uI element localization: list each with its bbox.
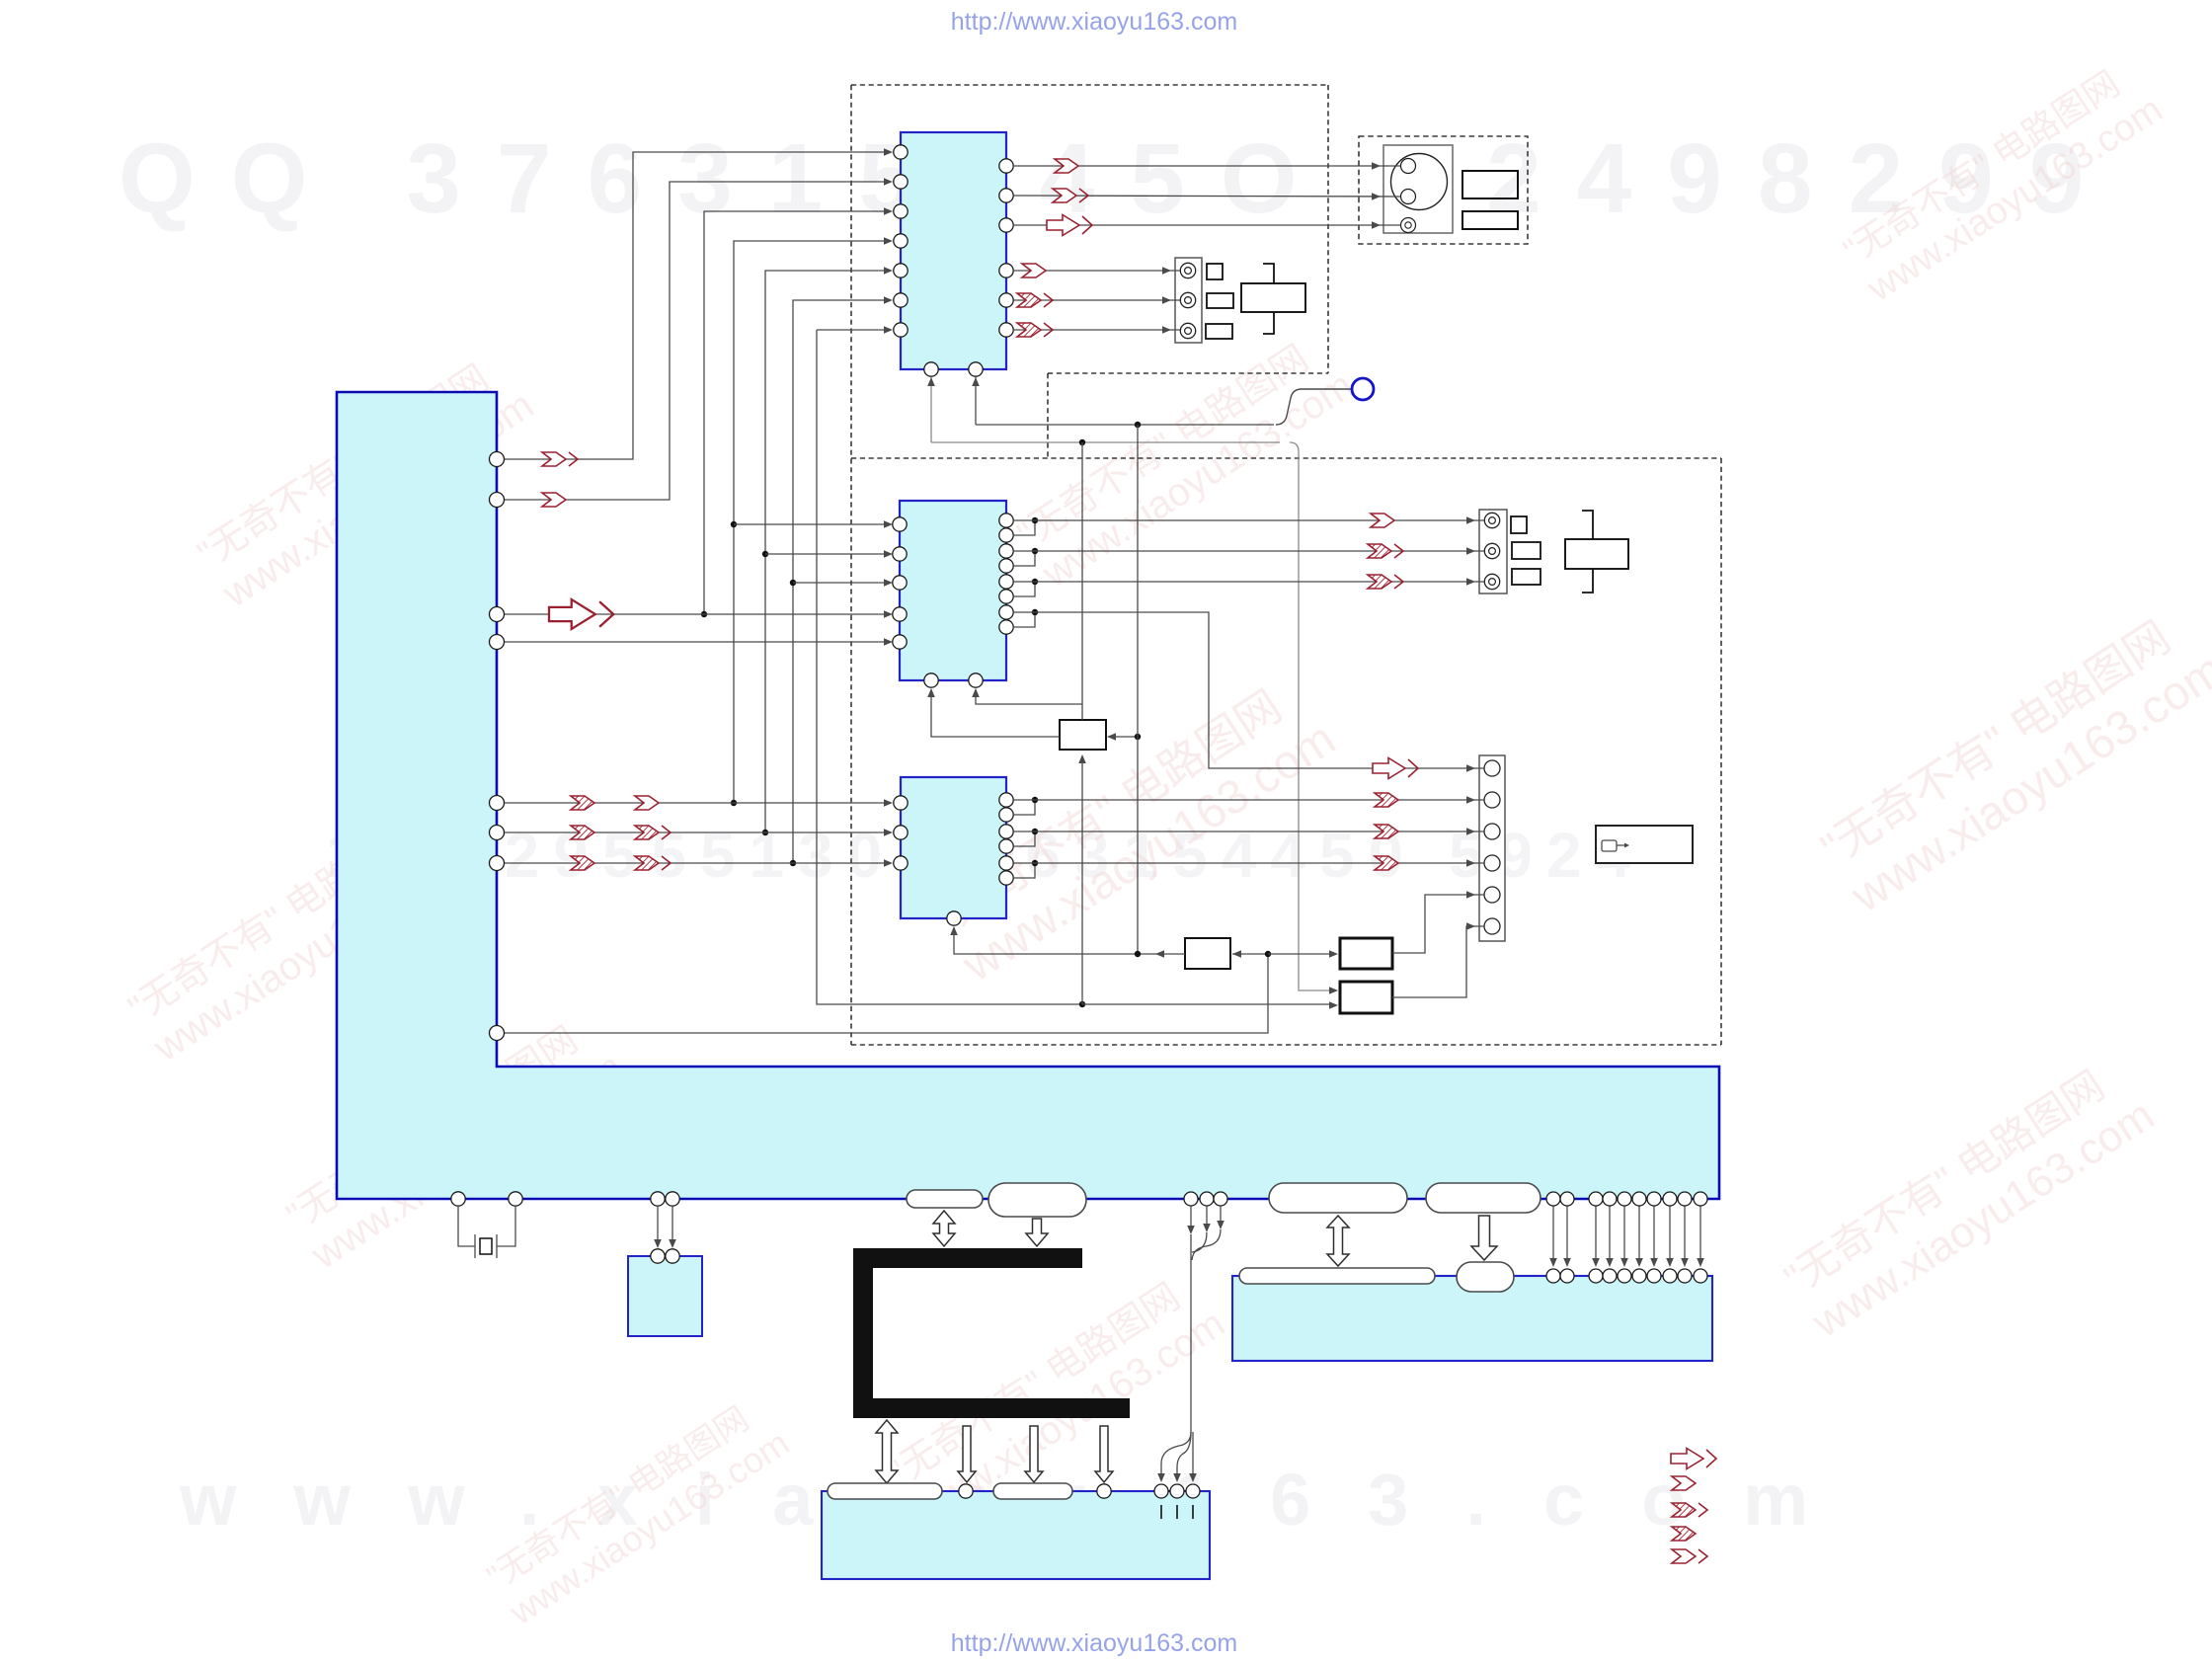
main IC right pin 1 <box>490 452 505 467</box>
main IC bottom pin XTAL1 <box>451 1192 465 1206</box>
IC2 bottom pin B <box>969 673 983 687</box>
IC2 left pin 4 <box>893 607 907 621</box>
wire IC1 pinA long run to SYNC box4 <box>931 441 1280 443</box>
arrow hatched-double bus3 <box>1368 575 1403 589</box>
CN1 jack pin 2 <box>1180 292 1195 307</box>
wire IC1 pinB to antenna pad <box>976 424 1274 426</box>
wire bundle G1 <box>1190 1206 1192 1232</box>
CN3 pin 4 <box>1484 855 1500 871</box>
wire X2 out to IC2 bottom pinA <box>931 689 1060 737</box>
IC1 left pin 5 <box>894 264 908 277</box>
IC1 left pin 1 <box>894 145 908 159</box>
IC1 left pin 3 <box>894 204 908 218</box>
watermark pink diagonal 5 <box>922 666 1344 992</box>
CN1 pad rect3 <box>1206 324 1232 339</box>
wire SYNC2 out to CN3 pin5 <box>1392 895 1484 953</box>
IC3 left pin 1 <box>894 796 908 810</box>
pad F1 on power board <box>1457 1262 1514 1292</box>
watermark pink diagonal 10 <box>480 1388 796 1632</box>
power board pin 6 <box>1632 1269 1646 1283</box>
power board pin 5 <box>1618 1269 1631 1283</box>
wire bus vertical to IC1 pin3 <box>704 211 886 614</box>
CN3 pin 6 <box>1484 918 1500 934</box>
power board pin 3 <box>1589 1269 1603 1283</box>
key pin1 <box>959 1484 973 1498</box>
arrow chevron on wire <box>542 493 566 507</box>
main IC right pin 3 <box>490 607 505 622</box>
IC bar power pin 7 <box>1647 1192 1661 1206</box>
wire IC1 video out to AV jack <box>1013 165 1400 167</box>
arrow hatched IC3bus2 <box>1375 825 1398 838</box>
key gnd pin1 <box>1154 1484 1168 1498</box>
wire SYNC1 out left to IC3 bottom <box>954 927 1185 954</box>
legend arrow chevron <box>1672 1476 1696 1490</box>
IC3 right pin 5 <box>999 856 1013 870</box>
legend arrow chevron-double <box>1672 1549 1707 1563</box>
block bottom-right board (power) <box>1232 1276 1712 1361</box>
IC bar power pin 6 <box>1632 1192 1646 1206</box>
dashed boundary middle box top edge <box>851 457 1721 459</box>
IC bar power pin 4 <box>1603 1192 1617 1206</box>
IC2 left pin 3 <box>893 576 907 590</box>
main IC bottom pin MEM2 <box>666 1192 679 1206</box>
main IC right pin 7 <box>490 856 505 871</box>
arrow hatched on IC3 wire1 <box>571 796 594 810</box>
key gnd tick2 <box>1176 1505 1178 1519</box>
key gnd pin2 <box>1170 1484 1184 1498</box>
IC3 right pin 3 <box>999 825 1013 838</box>
CN1 jack pin 3 <box>1180 323 1195 338</box>
IC3 left pin 2 <box>894 826 908 839</box>
wire bus vertical to IC1 pin4 and IC2 pin1 <box>734 241 886 803</box>
IC1 right pin 4 <box>999 264 1013 277</box>
IC bar power pin 3 <box>1589 1192 1603 1206</box>
CN2 pad square <box>1511 516 1527 533</box>
power board pin 1 <box>1546 1269 1560 1283</box>
wire IC to memory pin2 <box>671 1206 673 1246</box>
power wire 9 <box>1684 1206 1686 1265</box>
arrow chevron-double on VD wire <box>542 452 578 466</box>
IC2 right pin 5 <box>999 575 1013 589</box>
wire IC1 audio out to AV jack <box>1013 196 1400 197</box>
wire IC2 bottom pinB from clock net <box>976 689 1082 704</box>
wire into X2 right side <box>1108 736 1138 738</box>
wire bus vertical to IC1 pin7 <box>817 329 886 331</box>
IC3 output pair jog 810 <box>1013 800 1035 815</box>
IC3 right pin 6 <box>999 871 1013 885</box>
key gnd tick3 <box>1192 1505 1194 1519</box>
connector CN1 3-pin body <box>1175 258 1202 343</box>
watermark pink diagonal 9 <box>1835 51 2170 311</box>
IC2 left pin 5 <box>893 635 907 649</box>
watermark pink diagonal 8 <box>881 1263 1232 1535</box>
open down arrow CN4 to key2 <box>1095 1426 1113 1482</box>
power wire 2 <box>1566 1206 1568 1265</box>
legend arrow hatched-double <box>1672 1503 1707 1517</box>
arrow chevron video <box>1055 159 1078 173</box>
arrow big out3 <box>1047 215 1092 236</box>
IC bar power pin 9 <box>1678 1192 1692 1206</box>
watermark pink diagonal 2 <box>120 799 472 1070</box>
wire IC2 bus3 to CN2 pin3 <box>1013 581 1484 583</box>
IC2 right pin 8 <box>999 620 1013 634</box>
component T2 (filter) body <box>1565 539 1628 569</box>
arrow chevron CN1-1 <box>1022 264 1046 277</box>
wire IC sync out to SYNC2 box <box>505 954 1268 1033</box>
pad P3 on IC bar <box>1269 1183 1407 1213</box>
connector CN2 3-pin body <box>1479 510 1507 594</box>
IC bar power pin 8 <box>1663 1192 1677 1206</box>
wire antenna-net into X2 top <box>1081 442 1083 720</box>
pad P4 on IC bar <box>1426 1183 1540 1213</box>
arrow big bus4 <box>1373 758 1418 779</box>
component T1 lead bottom <box>1263 312 1274 334</box>
CN3 pin 1 <box>1484 760 1500 776</box>
IC1 right pin 2 <box>999 189 1013 202</box>
dashed boundary tuner box bottom edge <box>1048 372 1328 374</box>
AV jack barrel circle <box>1391 154 1448 210</box>
box USB out <box>1596 826 1693 863</box>
key gnd pin3 <box>1186 1484 1200 1498</box>
open down arrow P2 to CN4 <box>1026 1219 1048 1246</box>
memory top pin2 <box>666 1249 679 1263</box>
power board pin 10 <box>1694 1269 1707 1283</box>
CN1 pad rect2 <box>1207 293 1233 308</box>
main IC bottom pin MEM1 <box>651 1192 665 1206</box>
svg-text:http://www.xiaoyu163.com: http://www.xiaoyu163.com <box>951 8 1237 36</box>
IC bar power pin 1 <box>1546 1192 1560 1206</box>
IC3 right pin 2 <box>999 808 1013 822</box>
power board pin 7 <box>1647 1269 1661 1283</box>
main IC right pin 8 <box>490 1026 505 1041</box>
watermark pink diagonal 4 <box>1009 325 1361 596</box>
box SYNC1 body <box>1185 938 1230 969</box>
power wire 7 <box>1653 1206 1655 1265</box>
dashed boundary notch vertical <box>1047 373 1049 458</box>
open double arrow CN4 to pad K1 <box>876 1420 898 1483</box>
connector CN3 6-pin body <box>1479 755 1505 941</box>
IC2 bottom pin A <box>924 673 938 687</box>
IC1 right pin 5 <box>999 293 1013 307</box>
memory top pin1 <box>651 1249 665 1263</box>
block IC2 (middle) <box>900 501 1006 680</box>
main IC right pin 6 <box>490 826 505 840</box>
box SYNC3 body <box>1340 982 1392 1013</box>
arrow chevron on IC3 wire1 <box>635 796 659 810</box>
wire SYNC3 out to CN3 pin6 <box>1392 926 1484 997</box>
CN1 jack pin 1 <box>1180 263 1195 277</box>
open down arrow CN4 to pad K2 <box>1025 1426 1043 1482</box>
arrow hatched IC3bus1 <box>1375 793 1398 807</box>
IC3 bottom pin <box>947 911 961 925</box>
IC bar power pin 5 <box>1618 1192 1631 1206</box>
AV jack pin top <box>1401 159 1416 174</box>
arrow hatched on IC3 wire3 <box>571 856 594 870</box>
AV jack terminal rect2 <box>1462 211 1518 229</box>
pad P1 on IC bar <box>907 1190 983 1208</box>
dashed boundary middle box right edge <box>1720 458 1722 1045</box>
open double arrow P1 to CN4 <box>933 1211 955 1246</box>
AV jack body <box>1383 145 1453 233</box>
wire IC3 bus2 to CN3 pin3 <box>1013 831 1484 832</box>
IC2 right pin 4 <box>999 559 1013 573</box>
crystal X1 circuit <box>458 1206 475 1246</box>
CN3 pin 5 <box>1484 887 1500 903</box>
wire vertical bus x1152 <box>1137 425 1139 954</box>
svg-text:QQ 376315445O 52498299: QQ 376315445O 52498299 <box>118 123 2119 234</box>
arrow hatched-double on IC3 wire3 <box>635 856 671 870</box>
power wire 5 <box>1623 1206 1625 1265</box>
wire IC to IC3 pin3 <box>505 862 886 864</box>
IC3 output pair jog 842 <box>1013 831 1035 846</box>
CN3 pin 2 <box>1484 792 1500 808</box>
IC2 output pair jog 589 <box>1013 582 1035 596</box>
wire IC3 bus1 to CN3 pin2 <box>1013 799 1484 801</box>
block bottom-left board (keyboard) <box>822 1491 1210 1579</box>
AV jack pin bottom <box>1401 190 1416 204</box>
IC2 output pair jog 558 <box>1013 551 1035 566</box>
power wire 3 <box>1595 1206 1597 1265</box>
wire IC2 bus1 to CN2 pin1 <box>1013 519 1484 521</box>
wire into SYNC2 left <box>1268 953 1333 955</box>
power wire 6 <box>1638 1206 1640 1265</box>
IC1 left pin 4 <box>894 234 908 248</box>
pad K2 on keyboard <box>993 1483 1072 1499</box>
IC3 right pin 1 <box>999 793 1013 807</box>
wire IC to IC3 pin2 <box>505 831 886 833</box>
wire IC1 to CN1 pin2 <box>1013 299 1180 301</box>
wire bus vertical to IC1 pin5 and IC2 pin2 <box>765 271 886 832</box>
CN2 jack pin 3 <box>1484 574 1499 589</box>
wire IC to memory pin1 <box>657 1206 659 1246</box>
wire X2 bottom from osc net <box>1081 756 1083 1004</box>
component T1 lead top <box>1263 264 1274 283</box>
power board pin 4 <box>1603 1269 1617 1283</box>
connector CN4 frame (thick C shape) <box>863 1258 1130 1408</box>
CN2 jack pin 1 <box>1484 513 1499 527</box>
CN2 jack pin 2 <box>1484 543 1499 558</box>
antenna pad circle <box>1352 378 1374 400</box>
IC bar power pin 2 <box>1560 1192 1574 1206</box>
arrow hatched-double CN1-2 <box>1017 293 1053 307</box>
IC3 right pin 4 <box>999 839 1013 853</box>
wire IC1 to CN1 pin1 <box>1013 270 1180 272</box>
IC3 output pair jog 874 <box>1013 863 1035 878</box>
arrow chevron-double audio <box>1053 189 1088 202</box>
power board pin 9 <box>1678 1269 1692 1283</box>
wire bundle G2 <box>1206 1206 1208 1230</box>
key pin2 <box>1097 1484 1111 1498</box>
legend arrow big <box>1671 1449 1716 1469</box>
pad K1 on keyboard <box>828 1483 942 1499</box>
open down arrow P4 to pad F1 <box>1471 1216 1497 1260</box>
wire IC3 bus3 to CN3 pin4 <box>1013 862 1484 864</box>
dashed boundary left edge of IC-group boxes <box>850 85 852 1045</box>
svg-text:http://www.xiaoyu163.com: http://www.xiaoyu163.com <box>951 1629 1237 1657</box>
IC bar pin G1 <box>1184 1192 1198 1206</box>
IC bar pin G2 <box>1200 1192 1214 1206</box>
wire IC big-bus to IC2 pin4 <box>505 613 886 615</box>
pad E1 on power board <box>1239 1268 1435 1284</box>
power wire 10 <box>1699 1206 1701 1265</box>
component T2 lead top <box>1582 511 1593 539</box>
wire IC pin VD to IC1 pin1 <box>505 152 886 459</box>
pad P2 on IC bar <box>988 1183 1086 1217</box>
block small memory (below bar) <box>628 1256 702 1336</box>
main IC bottom pin XTAL2 <box>509 1192 522 1206</box>
wire IC to IC2 pin5 <box>505 641 886 643</box>
arrow hatched-double on IC3 wire2 <box>635 826 671 839</box>
power board pin 8 <box>1663 1269 1677 1283</box>
wire IC pin to IC1 pin2 <box>505 182 886 500</box>
block IC1 (tuner/demod, top) <box>901 132 1006 369</box>
power wire 4 <box>1609 1206 1611 1265</box>
dashed box around AV jack <box>1359 136 1528 244</box>
main IC right pin 2 <box>490 493 505 508</box>
wire IC2 bus2 to CN2 pin2 <box>1013 550 1484 552</box>
main IC right pin 5 <box>490 796 505 811</box>
IC2 right pin 3 <box>999 544 1013 558</box>
key gnd tick1 <box>1160 1505 1162 1519</box>
AV jack terminal rect1 <box>1462 171 1518 198</box>
IC1 bottom pin A <box>924 362 938 376</box>
IC1 left pin 7 <box>894 323 908 337</box>
power wire 8 <box>1669 1206 1671 1265</box>
IC1 right pin 1 <box>999 159 1013 173</box>
open double arrow P3 to pad E1 <box>1327 1216 1349 1266</box>
CN2 pad rect2 <box>1512 542 1540 559</box>
main IC right pin 4 <box>490 635 505 650</box>
IC2 left pin 1 <box>893 517 907 531</box>
power board pin 2 <box>1560 1269 1574 1283</box>
wire IC to IC3 pin1 <box>505 802 886 804</box>
IC2 right pin 2 <box>999 528 1013 542</box>
dashed boundary middle box bottom edge <box>851 1044 1721 1046</box>
IC2 left pin 2 <box>893 547 907 561</box>
IC1 left pin 2 <box>894 175 908 189</box>
arrow hatched IC3bus3 <box>1375 856 1398 870</box>
watermark pink diagonal 3 <box>278 1006 630 1278</box>
wire from SYNC2 into SYNC1 right <box>1232 953 1268 955</box>
IC bar pin G3 <box>1214 1192 1227 1206</box>
main IC U100 system LSI (L-shaped block) <box>337 392 1719 1199</box>
component T2 lead bottom <box>1582 569 1593 593</box>
block IC3 (lower) <box>901 777 1006 918</box>
arrow hatched-double CN1-3 <box>1017 323 1053 337</box>
component T1 (filter) body <box>1241 283 1305 312</box>
wire IC1 out3 to AV jack <box>1013 224 1400 226</box>
IC2 output pair jog 527 <box>1013 520 1035 535</box>
wire bundle G3 <box>1220 1206 1222 1227</box>
dashed boundary right edge of tuner box <box>1327 85 1329 373</box>
box SYNC2 body <box>1340 938 1392 969</box>
box X2 (clock) body <box>1060 720 1106 750</box>
open down arrow CN4 to key1 <box>958 1426 976 1482</box>
IC2 right pin 6 <box>999 590 1013 603</box>
IC2 right pin 7 <box>999 605 1013 619</box>
wire IC1 to CN1 pin3 <box>1013 329 1180 331</box>
IC2 output pair jog 620 <box>1013 612 1035 627</box>
AV jack pin small <box>1401 218 1416 233</box>
dashed boundary top edge of tuner box <box>851 84 1328 86</box>
arrow hatched on IC3 wire2 <box>571 826 594 839</box>
CN3 pin 3 <box>1484 824 1500 839</box>
IC2 right pin 1 <box>999 514 1013 527</box>
power wire 1 <box>1552 1206 1554 1265</box>
wire IC2 bus4 down to CN3 pin1 <box>1013 612 1484 768</box>
arrow hatched-double bus2 <box>1368 544 1403 558</box>
watermark pink diagonal 1 <box>190 345 541 616</box>
IC bar power pin 10 <box>1694 1192 1707 1206</box>
IC1 bottom pin B <box>969 362 983 376</box>
IC1 right pin 3 <box>999 218 1013 232</box>
wire bundle split to key pins <box>1161 1432 1191 1479</box>
CN2 pad rect3 <box>1512 569 1540 585</box>
watermark pink diagonal 7 <box>1776 1048 2163 1348</box>
wire bus vertical to IC1 pin6 and IC2 pin3 <box>793 300 886 863</box>
watermark pink diagonal 6 <box>1811 596 2212 923</box>
IC1 left pin 6 <box>894 293 908 307</box>
arrow chevron bus1 <box>1371 514 1394 527</box>
legend arrow hatched <box>1672 1527 1696 1541</box>
arrow big on bus wire <box>549 599 613 629</box>
IC1 right pin 6 <box>999 323 1013 337</box>
CN1 pad square <box>1207 264 1223 279</box>
IC3 left pin 3 <box>894 856 908 870</box>
